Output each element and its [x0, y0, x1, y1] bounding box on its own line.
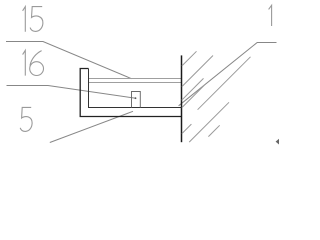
top plate lower line: [89, 82, 181, 84]
bracket inner edge (right vertical of bar, inner bottom): [89, 69, 182, 108]
label 16: [23, 50, 44, 75]
small block 16: [132, 92, 141, 108]
label 15: [23, 7, 43, 32]
hatch h3: [182, 56, 213, 87]
top plate upper line: [89, 78, 181, 80]
hatch h9: [208, 125, 219, 136]
bracket channel (left vertical bar, outer bottom): [80, 69, 181, 117]
wall section line 1: [181, 55, 183, 142]
hatch h6: [198, 57, 251, 110]
hatch h4: [182, 78, 204, 100]
leader line 1: [179, 43, 277, 106]
hatch lines: [182, 51, 251, 142]
hatch h7: [182, 124, 192, 134]
leader line 16: [7, 86, 136, 99]
hatch h8: [189, 102, 229, 142]
hatch h1: [182, 51, 197, 66]
leader 16 tip: [135, 97, 137, 99]
edge arrowhead: [276, 139, 279, 145]
leader line 15: [6, 42, 132, 79]
label 5: [20, 107, 32, 131]
leader line 5: [50, 111, 133, 142]
label 1: [269, 5, 272, 26]
hatch h5: [182, 85, 205, 108]
